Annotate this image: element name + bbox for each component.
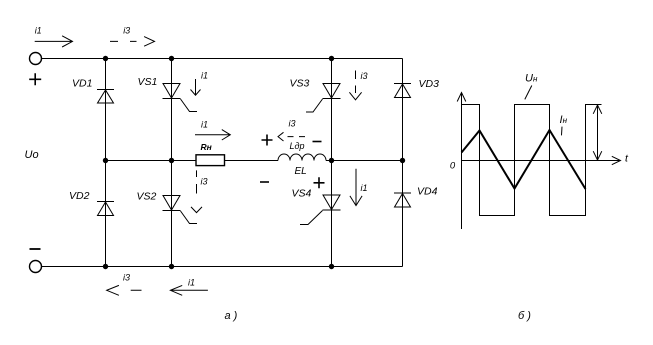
svg-text:0: 0 bbox=[450, 161, 456, 172]
svg-text:VD2: VD2 bbox=[69, 190, 90, 202]
svg-text:Uо: Uо bbox=[25, 149, 39, 161]
svg-text:i1: i1 bbox=[361, 183, 368, 193]
svg-text:VS2: VS2 bbox=[137, 190, 157, 202]
svg-text:i3: i3 bbox=[289, 119, 296, 129]
svg-text:EL: EL bbox=[295, 166, 307, 177]
svg-text:а ): а ) bbox=[225, 310, 238, 322]
svg-text:VS4: VS4 bbox=[292, 188, 312, 200]
svg-text:i3: i3 bbox=[123, 272, 130, 282]
svg-text:Iн: Iн bbox=[560, 114, 568, 126]
svg-text:VD3: VD3 bbox=[419, 78, 440, 90]
svg-text:i3: i3 bbox=[201, 177, 208, 187]
svg-text:VD4: VD4 bbox=[417, 186, 438, 198]
svg-text:i1: i1 bbox=[201, 120, 208, 130]
svg-text:Lдр: Lдр bbox=[290, 141, 305, 151]
svg-text:i1: i1 bbox=[188, 278, 195, 288]
svg-text:i3: i3 bbox=[361, 71, 368, 81]
svg-text:i3: i3 bbox=[123, 26, 130, 36]
svg-text:i1: i1 bbox=[35, 26, 42, 36]
svg-text:VS1: VS1 bbox=[138, 76, 158, 88]
svg-text:VS3: VS3 bbox=[290, 78, 310, 90]
svg-text:i1: i1 bbox=[201, 71, 208, 81]
svg-text:Rн: Rн bbox=[201, 142, 212, 152]
svg-text:Uн: Uн bbox=[525, 73, 538, 85]
svg-text:б ): б ) bbox=[518, 310, 531, 322]
svg-text:VD1: VD1 bbox=[72, 77, 92, 89]
